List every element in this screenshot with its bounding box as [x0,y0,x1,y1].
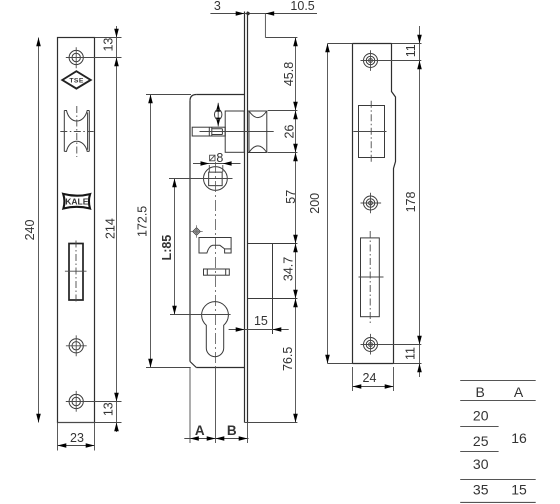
svg-text:20: 20 [473,408,489,424]
svg-text:11: 11 [404,44,418,57]
svg-text:178: 178 [404,192,418,213]
svg-text:24: 24 [363,371,377,385]
svg-text:35: 35 [473,481,489,497]
svg-text:TSE: TSE [69,78,83,85]
svg-text:KALE: KALE [65,197,88,207]
svg-text:B: B [476,384,485,400]
svg-text:15: 15 [254,314,268,328]
svg-text:26: 26 [283,125,297,139]
svg-text:8: 8 [216,151,223,165]
svg-text:172.5: 172.5 [136,206,150,237]
svg-text:30: 30 [473,456,489,472]
svg-text:13: 13 [101,38,115,52]
svg-text:13: 13 [101,402,115,416]
svg-text:76.5: 76.5 [281,347,295,371]
svg-text:L:85: L:85 [160,235,174,261]
svg-text:10.5: 10.5 [290,0,314,13]
svg-text:15: 15 [511,481,527,497]
svg-text:214: 214 [103,218,117,239]
svg-text:25: 25 [473,433,489,449]
svg-text:A: A [514,384,524,400]
svg-text:23: 23 [70,431,84,445]
svg-text:57: 57 [284,190,298,204]
svg-text:B: B [227,423,237,438]
svg-text:3: 3 [214,0,221,13]
svg-text:240: 240 [23,220,37,241]
svg-text:16: 16 [511,430,527,446]
svg-text:11: 11 [404,347,418,360]
svg-text:A: A [195,423,205,438]
svg-text:34.7: 34.7 [282,257,296,281]
svg-text:45.8: 45.8 [282,62,296,86]
svg-text:200: 200 [308,193,322,214]
